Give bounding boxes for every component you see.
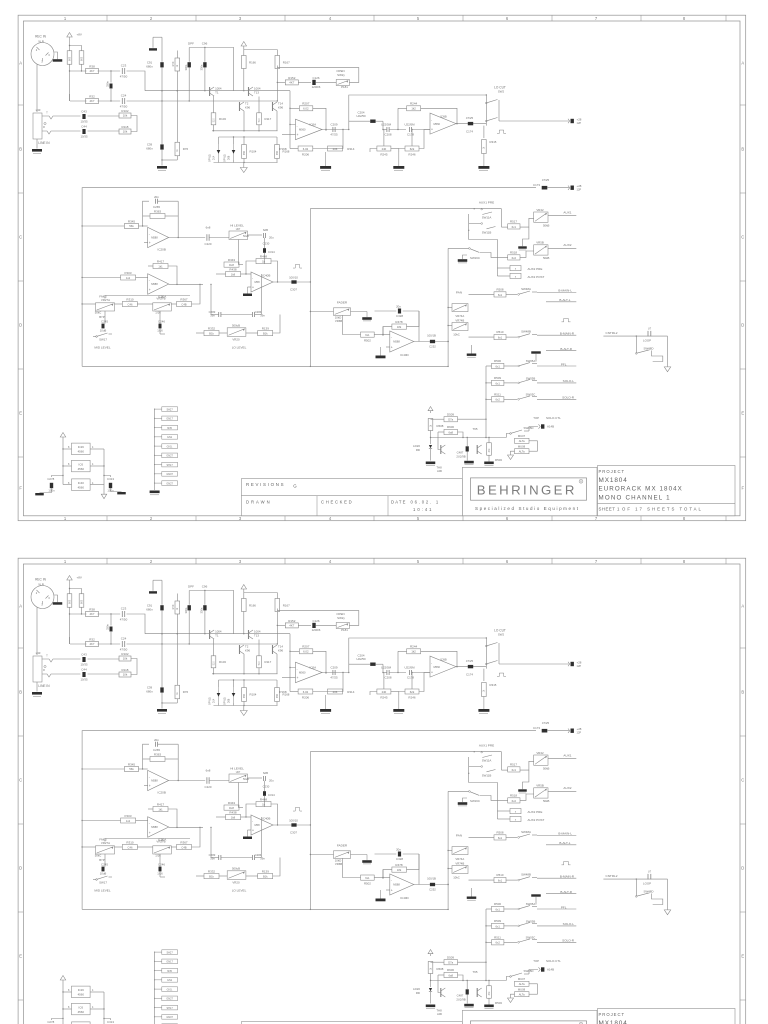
- resistor R103: [211, 113, 226, 125]
- svg-text:68R: 68R: [277, 694, 279, 699]
- svg-text:AUX2 POST: AUX2 POST: [528, 275, 545, 279]
- svg-text:20n: 20n: [396, 847, 401, 851]
- svg-text:4K7: 4K7: [90, 69, 95, 73]
- svg-text:+28: +28: [577, 117, 582, 121]
- resistor R76: [161, 91, 188, 161]
- svg-text:R508: R508: [497, 288, 504, 292]
- ground (jack): [32, 149, 42, 154]
- wire bias rail (page 2): [212, 668, 278, 675]
- XLR connector X1 (page 2): [31, 586, 54, 609]
- switch SW48A (page 2): [518, 830, 537, 838]
- svg-text:SW05B: SW05B: [526, 920, 536, 924]
- jack J1 LINE IN (page 2): [33, 655, 58, 683]
- svg-text:R118: R118: [122, 668, 129, 672]
- pot VR74A (page 2): [448, 847, 468, 861]
- capacitor C23: [120, 64, 128, 79]
- svg-text:U22/5M: U22/5M: [404, 122, 415, 126]
- power +8V arrow (page 2): [67, 576, 82, 589]
- wire HI wiper down (page 2): [238, 783, 243, 808]
- wire R345 to IC20B: [139, 201, 150, 227]
- svg-text:D7a: D7a: [448, 418, 453, 422]
- wire T columns: [214, 96, 278, 131]
- connector z4B bus (page 2): [568, 727, 582, 735]
- svg-text:BYP: BYP: [99, 315, 105, 319]
- svg-text:AUX1 PRE: AUX1 PRE: [479, 743, 494, 747]
- wire R345 to IC20B (page 2): [139, 744, 150, 770]
- svg-text:GN1: GN1: [167, 436, 173, 439]
- svg-text:62k: 62k: [410, 147, 415, 151]
- title block REVISIONS box: [241, 479, 462, 516]
- svg-text:GN1: GN1: [167, 979, 173, 982]
- wire R39 R40 bottoms: [69, 64, 82, 101]
- svg-text:A: A: [741, 61, 744, 66]
- svg-text:M588: M588: [393, 883, 400, 887]
- pot VR27B (page 2): [153, 846, 172, 858]
- capacitor C246: [157, 320, 165, 334]
- svg-text:C314: C314: [268, 250, 275, 254]
- svg-text:M588: M588: [393, 340, 400, 344]
- svg-text:10/35: 10/35: [81, 678, 88, 682]
- wire C23 right then down (page 2): [127, 614, 146, 634]
- label OPEN SW2y: [336, 69, 345, 77]
- svg-text:VR27A: VR27A: [101, 841, 110, 845]
- wire bias mid rail (page 2): [219, 679, 278, 687]
- svg-text:C220: C220: [205, 785, 212, 789]
- LED LD20: [413, 438, 432, 461]
- wire EQ out riser (page 2): [310, 824, 311, 909]
- capacitor C245 (page 2): [100, 863, 109, 876]
- ground (C278): [35, 493, 44, 495]
- label CNTRL2 (page 2): [605, 874, 617, 878]
- svg-text:-: -: [431, 118, 432, 122]
- svg-text:SW16C: SW16C: [470, 256, 480, 260]
- svg-text:R152: R152: [288, 619, 296, 623]
- resistor R139: [246, 315, 280, 336]
- svg-text:1: 1: [64, 16, 67, 21]
- title block BEHRINGER box (page 2): [462, 1010, 597, 1024]
- capacitor C173 (page 2): [533, 721, 569, 733]
- wire mute riser (page 2): [485, 909, 486, 981]
- op-amp IC40B: [251, 261, 278, 292]
- svg-text:MONO CHANNEL 1: MONO CHANNEL 1: [599, 494, 671, 501]
- capacitor C208: [381, 121, 406, 136]
- svg-text:240: 240: [382, 690, 387, 694]
- label DPF C96: [188, 42, 208, 46]
- svg-text:CHECKED: CHECKED: [321, 500, 353, 505]
- svg-text:680n: 680n: [146, 608, 153, 612]
- capacitor C178: [404, 122, 430, 136]
- wire row collector: [145, 90, 290, 91]
- svg-text:-: -: [252, 276, 253, 280]
- resistor R70 (page 2): [171, 594, 180, 635]
- svg-text:U22/5M: U22/5M: [404, 665, 415, 669]
- IC40 supply box: [63, 479, 104, 491]
- connector z4B +28: [568, 117, 582, 125]
- svg-text:D: D: [19, 323, 22, 328]
- transistor T13 (page 2): [249, 630, 261, 639]
- wire AUX1 out: [548, 210, 576, 215]
- resistor R40: [79, 51, 84, 65]
- svg-text:+: +: [431, 670, 433, 674]
- label FADER: [337, 300, 348, 304]
- resistor R32 (page 2): [86, 638, 99, 647]
- wire B-ALT-R (page 2): [546, 890, 576, 894]
- resistor R363: [143, 201, 179, 237]
- frame zone tick marks: [18, 15, 746, 521]
- svg-text:47/25: 47/25: [542, 178, 550, 182]
- svg-text:GN27: GN27: [166, 998, 173, 1001]
- svg-text:C265: C265: [153, 748, 160, 752]
- svg-text:206: 206: [333, 147, 338, 151]
- svg-text:x: x: [515, 268, 517, 271]
- resistor R206 feedback (page 2): [290, 673, 343, 700]
- wire caps to rail: [52, 475, 111, 477]
- svg-text:AUX2 POST: AUX2 POST: [528, 818, 545, 822]
- ground (R503) (page 2): [484, 998, 494, 1008]
- svg-text:EURORACK MX 1804X: EURORACK MX 1804X: [599, 486, 683, 493]
- resistor R332 (page 2): [196, 869, 227, 878]
- wire bias bottom rail: [214, 159, 278, 164]
- svg-text:C328: C328: [396, 314, 403, 318]
- title block PROJECT box: [598, 466, 736, 516]
- switch SW17 (mid byp): [93, 333, 112, 342]
- wire node row1 left (page 2): [70, 613, 87, 615]
- svg-text:C: C: [19, 235, 22, 240]
- svg-text:R314: R314: [347, 147, 355, 151]
- wire IC6B out: [456, 123, 486, 124]
- capacitor C307 (page 2): [289, 819, 298, 835]
- svg-text:P168: P168: [279, 147, 286, 151]
- svg-text:2: 2: [150, 559, 153, 564]
- frame zone numbers 1-8 top and bottom (page 2): [64, 559, 686, 1024]
- svg-text:PROJECT: PROJECT: [599, 469, 626, 474]
- svg-text:10k: 10k: [123, 114, 128, 118]
- wire R152 row (page 2): [277, 624, 311, 626]
- resistor R508 (page 2): [469, 831, 518, 841]
- svg-text:5: 5: [417, 16, 420, 21]
- svg-text:SH27: SH27: [166, 951, 173, 954]
- svg-text:R332: R332: [208, 326, 216, 330]
- resistor R246 (page 2): [391, 672, 419, 700]
- svg-text:HI LEVEL: HI LEVEL: [230, 223, 244, 227]
- wire main bus to EQ (page 2): [82, 731, 536, 910]
- svg-text:K96: K96: [278, 106, 284, 110]
- wire IC6B in+ (page 2): [419, 673, 430, 692]
- svg-text:C43: C43: [81, 110, 87, 114]
- svg-text:x43: x43: [36, 651, 41, 655]
- connector header column: [154, 407, 177, 486]
- svg-text:4K7: 4K7: [90, 99, 95, 103]
- svg-text:A14B: A14B: [547, 968, 554, 972]
- resistor R168: [275, 145, 290, 159]
- svg-text:T65: T65: [473, 427, 478, 431]
- label LO LEVEL: [232, 346, 247, 350]
- svg-text:R511: R511: [494, 393, 501, 397]
- resistor R102 (page 2): [119, 652, 131, 661]
- resistor R32: [86, 95, 99, 104]
- capacitor C307: [289, 276, 298, 292]
- svg-text:R363: R363: [154, 210, 162, 214]
- label VR27B (page 2): [156, 840, 165, 844]
- svg-text:C246: C246: [158, 320, 165, 324]
- wire XLR pin3 to ground (page 2): [54, 595, 58, 602]
- svg-text:2U2/9B: 2U2/9B: [456, 997, 465, 1001]
- switch SW11A (page 2): [469, 751, 502, 773]
- svg-text:LO LEVEL: LO LEVEL: [232, 346, 247, 350]
- wire HI wiper down: [238, 240, 243, 265]
- capacitor C174: [466, 116, 474, 134]
- svg-text:PAN: PAN: [456, 833, 462, 837]
- svg-text:C24: C24: [121, 94, 127, 98]
- capacitor C36 330n (page 2): [184, 605, 191, 645]
- wire riser top to AUX (page 2): [310, 752, 474, 825]
- svg-text:R104: R104: [250, 693, 257, 697]
- resistor R206 feedback: [290, 130, 343, 157]
- resistor R503: [487, 437, 503, 462]
- svg-text:50kC: 50kC: [95, 310, 102, 314]
- svg-text:R76: R76: [183, 690, 189, 694]
- ground (R245 R246) (page 2): [393, 695, 404, 714]
- svg-text:P181: P181: [341, 628, 348, 632]
- diode D14: [208, 144, 220, 162]
- svg-text:HI LEVEL: HI LEVEL: [230, 766, 244, 770]
- ground triangle (bias) (page 2): [240, 706, 247, 716]
- svg-text:20n: 20n: [154, 195, 159, 199]
- svg-text:12P: 12P: [577, 188, 582, 192]
- power arrow (IC block): [60, 433, 66, 485]
- svg-text:100/10: 100/10: [289, 276, 298, 280]
- label BYP (page 2): [99, 858, 105, 862]
- svg-text:U22/50: U22/50: [356, 114, 366, 118]
- pulse symbol (routing) (page 2): [562, 861, 571, 865]
- capacitor C44 (page 2): [81, 668, 88, 682]
- wire fader wiper: [343, 315, 361, 334]
- resistor R117: [257, 113, 272, 125]
- label LO LEVEL (page 2): [232, 889, 247, 893]
- svg-text:1k8: 1k8: [231, 273, 236, 277]
- svg-text:1k1: 1k1: [158, 807, 163, 811]
- svg-text:1k: 1k: [484, 146, 486, 149]
- svg-text:A: A: [741, 604, 744, 609]
- svg-text:SW48A: SW48A: [521, 287, 531, 291]
- svg-text:T13: T13: [254, 634, 259, 638]
- svg-text:R139: R139: [262, 869, 270, 873]
- wire SOLO-L (page 2): [537, 922, 576, 926]
- wire EQ input stub: [81, 225, 124, 226]
- wire IC6A out: [322, 129, 349, 130]
- ground triangle (CNTRL2) (page 2): [664, 910, 671, 915]
- power arrow (solo logic) (page 2): [428, 950, 433, 957]
- svg-text:SW05D: SW05D: [524, 426, 534, 430]
- svg-text:6N5: 6N5: [167, 427, 172, 430]
- pulse symbol (EQ out) (page 2): [293, 808, 302, 812]
- svg-text:1: 1: [64, 559, 67, 564]
- switch SW16C: [469, 248, 508, 260]
- svg-text:7: 7: [595, 559, 598, 564]
- svg-text:DPF: DPF: [188, 585, 194, 589]
- svg-text:50kB: 50kB: [543, 766, 550, 770]
- svg-text:1k: 1k: [177, 691, 179, 694]
- svg-text:VR27B: VR27B: [156, 840, 165, 844]
- resistor R478 feedback: [375, 311, 420, 336]
- svg-text:MID LEVEL: MID LEVEL: [94, 346, 110, 350]
- resistor R506 (PFL) (page 2): [486, 902, 517, 911]
- svg-text:330n: 330n: [184, 64, 188, 70]
- svg-text:R511: R511: [494, 936, 501, 940]
- resistor R343 (page 2): [224, 801, 239, 810]
- svg-text:P168: P168: [279, 690, 286, 694]
- svg-text:330n: 330n: [106, 81, 110, 87]
- resistor R606 (page 2): [438, 968, 463, 980]
- ground (R315): [478, 154, 489, 171]
- resistor R38 (page 2): [86, 608, 99, 617]
- wire IC40D fb up: [418, 311, 420, 342]
- svg-text:GN1.: GN1.: [167, 445, 173, 448]
- svg-text:C252: C252: [429, 887, 436, 891]
- resistor R39: [67, 51, 72, 65]
- svg-text:IC40B: IC40B: [262, 817, 270, 821]
- IC26 supply box: [62, 443, 104, 455]
- svg-text:6x1: 6x1: [496, 381, 501, 385]
- svg-text:3: 3: [239, 516, 242, 521]
- svg-text:10kC: 10kC: [453, 332, 460, 336]
- capacitor C487: [456, 437, 468, 459]
- label CNTRL2: [605, 331, 617, 335]
- label FM02 VR27A (page 2): [99, 838, 110, 846]
- ground (IC40B) (page 2): [243, 830, 252, 839]
- label PAN (page 2): [456, 833, 462, 837]
- diode D14 (page 2): [208, 687, 220, 705]
- svg-text:5: 5: [417, 559, 420, 564]
- wire jack sleeve to ground (page 2): [36, 682, 38, 692]
- wire IC40D out (page 2): [414, 884, 449, 885]
- svg-text:R103: R103: [219, 117, 226, 121]
- svg-text:SHEET 1: SHEET 1: [599, 507, 620, 512]
- svg-text:68R: 68R: [244, 151, 246, 156]
- wire aux riser: [447, 248, 468, 366]
- svg-text:R207: R207: [302, 102, 310, 106]
- svg-text:330n: 330n: [106, 624, 110, 630]
- label AUX1 PRE: [479, 200, 494, 204]
- svg-text:R517: R517: [510, 220, 517, 224]
- svg-text:R315: R315: [490, 140, 497, 144]
- label x43: [36, 108, 41, 112]
- wire R32 to C24 (page 2): [98, 643, 121, 645]
- svg-text:+28: +28: [577, 727, 582, 731]
- svg-text:240: 240: [382, 147, 387, 151]
- svg-text:VR74A: VR74A: [455, 314, 464, 318]
- svg-text:R608: R608: [437, 967, 444, 971]
- svg-text:VR42: VR42: [536, 751, 544, 755]
- svg-text:R502: R502: [364, 339, 371, 343]
- svg-text:SH17: SH17: [166, 464, 173, 467]
- svg-text:C208: C208: [385, 133, 392, 137]
- wire EQ out: [273, 281, 310, 283]
- fader VR6B: [310, 308, 350, 323]
- svg-text:SW11B: SW11B: [482, 774, 492, 778]
- svg-text:20n: 20n: [154, 738, 159, 742]
- label FM02 VR27A: [99, 295, 110, 303]
- svg-text:47/25: 47/25: [466, 116, 474, 120]
- wire node row2 left (page 2): [70, 637, 87, 644]
- svg-text:+28: +28: [577, 660, 582, 664]
- svg-text:SW16C: SW16C: [470, 799, 480, 803]
- svg-text:F: F: [19, 486, 22, 491]
- resistor R511 (SOLO-R) (page 2): [486, 936, 517, 945]
- label HI LEVEL (page 2): [230, 766, 244, 774]
- svg-text:+: +: [149, 241, 151, 245]
- wire filter top: [161, 37, 163, 62]
- ground (XLR): [53, 59, 63, 62]
- label DPF C96 (page 2): [188, 585, 208, 589]
- svg-text:10/35: 10/35: [81, 663, 88, 667]
- svg-text:18k: 18k: [397, 325, 402, 329]
- svg-text:6.02: 6.02: [303, 147, 309, 151]
- svg-text:47/25: 47/25: [542, 721, 550, 725]
- svg-text:BYP: BYP: [99, 858, 105, 862]
- svg-text:R167: R167: [283, 604, 290, 608]
- svg-text:R608: R608: [437, 424, 444, 428]
- wire EQ out (page 2): [273, 824, 310, 826]
- svg-text:2: 2: [150, 516, 153, 521]
- label OPEN SW2y (page 2): [336, 612, 345, 620]
- svg-text:P181: P181: [341, 85, 348, 89]
- svg-text:K96: K96: [245, 649, 251, 653]
- pot VR20 LO (page 2): [227, 867, 246, 885]
- svg-text:C230: C230: [263, 242, 270, 246]
- svg-text:C126: C126: [313, 619, 320, 623]
- svg-text:R510: R510: [497, 330, 504, 334]
- svg-text:3: 3: [48, 596, 50, 600]
- svg-text:B-ALT-R: B-ALT-R: [560, 347, 572, 351]
- svg-text:10k: 10k: [123, 130, 128, 134]
- ground (C313): [117, 492, 126, 494]
- svg-text:SW2y: SW2y: [337, 616, 345, 620]
- svg-text:4: 4: [92, 446, 94, 449]
- op-amp IC20A: [148, 274, 169, 299]
- svg-text:330n: 330n: [184, 607, 188, 613]
- svg-text:RD: RD: [416, 448, 420, 452]
- resistor R244 (page 2): [397, 645, 457, 674]
- svg-text:47/50: 47/50: [120, 648, 128, 652]
- transistor T14: [273, 102, 284, 111]
- svg-text:10:41: 10:41: [413, 507, 433, 512]
- svg-text:IC40D: IC40D: [400, 353, 409, 357]
- resistor R315: [482, 126, 497, 154]
- ground triangle (solo sw) (page 2): [508, 998, 514, 1003]
- power arrow (bias top): [241, 42, 277, 50]
- svg-text:C46: C46: [128, 845, 133, 849]
- svg-text:IC6A: IC6A: [310, 123, 317, 127]
- svg-text:SW17: SW17: [99, 338, 107, 342]
- pot VR27B: [153, 303, 172, 315]
- wire IC20B in+ gnd: [144, 242, 148, 244]
- svg-text:R506: R506: [494, 902, 501, 906]
- svg-text:VR27A: VR27A: [101, 298, 110, 302]
- pot VR27A (page 2): [95, 846, 115, 858]
- connector header column (page 2): [154, 950, 177, 1024]
- svg-text:12P: 12P: [577, 731, 582, 735]
- svg-text:R: R: [43, 126, 45, 129]
- title block REVISIONS box (page 2): [241, 1022, 462, 1024]
- svg-text:4: 4: [92, 989, 94, 992]
- frame zone numbers 1-8 top and bottom: [64, 16, 686, 521]
- svg-text:R343: R343: [228, 801, 236, 805]
- svg-text:R315: R315: [490, 683, 497, 687]
- svg-text:1k: 1k: [177, 64, 179, 67]
- label FADER (page 2): [337, 843, 348, 847]
- transistor T2: [240, 102, 251, 111]
